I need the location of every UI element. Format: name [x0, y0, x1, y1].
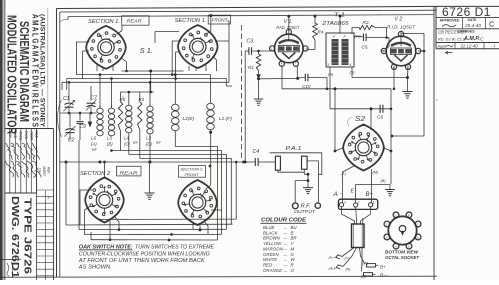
junction — [370, 107, 373, 110]
svg-text:V 2: V 2 — [395, 17, 403, 23]
rotary switch S1 section1 front — [178, 25, 218, 68]
coil L5 — [111, 105, 113, 108]
svg-text:4: 4 — [350, 63, 352, 67]
junction — [171, 73, 174, 76]
osc wire — [330, 108, 391, 110]
wire sec2rear top — [104, 162, 106, 178]
wire L5 feed — [111, 79, 113, 108]
wire E to ground — [356, 185, 390, 203]
svg-text:2TA6865: 2TA6865 — [321, 21, 349, 27]
wire C4 into socket — [270, 161, 276, 163]
svg-text:DATE: DATE — [468, 18, 478, 22]
junction — [257, 77, 260, 80]
svg-text:T 1: T 1 — [334, 13, 345, 19]
RF jack right — [315, 203, 320, 208]
junction — [406, 76, 409, 79]
capacitor C6 — [379, 105, 381, 113]
svg-text:APP.: APP. — [8, 131, 12, 139]
svg-text:25-4-40: 25-4-40 — [464, 23, 481, 28]
svg-text:—: — — [283, 226, 288, 230]
svg-text:(M): (M) — [373, 171, 379, 175]
svg-text:R3: R3 — [139, 97, 145, 102]
capacitor C9 — [79, 113, 81, 121]
svg-text:(A): (A) — [91, 142, 97, 147]
title block frame line — [4, 0, 6, 280]
svg-text:6726 D1: 6726 D1 — [442, 6, 491, 19]
wire socket to jack — [307, 161, 318, 203]
svg-text:—: — — [283, 247, 288, 251]
svg-text:3: 3 — [344, 200, 346, 204]
variable capacitor C1 — [68, 82, 70, 101]
wire L3 feed — [149, 82, 151, 106]
svg-text:TYPE J6726: TYPE J6726 — [21, 198, 32, 275]
feeder bus yB — [121, 91, 155, 93]
arrow tap C7 — [89, 113, 91, 122]
rotary switch S2 front — [178, 180, 217, 225]
svg-text:2.: 2. — [356, 201, 360, 205]
wires section2 rear — [80, 190, 92, 225]
triode V1 — [275, 34, 304, 63]
wire R1 to node — [258, 71, 260, 79]
svg-text:(D): (D) — [146, 142, 152, 147]
svg-text:—: — — [283, 242, 288, 246]
wire FRONT tag to switch — [210, 16, 212, 31]
handwritten log entries — [6, 143, 13, 160]
svg-text:YELLOW: YELLOW — [263, 241, 282, 246]
svg-text:B: B — [291, 230, 294, 235]
svg-text:31 12-40: 31 12-40 — [460, 43, 478, 48]
svg-text:A.M.P.: A.M.P. — [463, 36, 480, 42]
svg-text:C7: C7 — [91, 96, 98, 102]
coil L1 — [207, 103, 215, 109]
capacitor C5 — [359, 36, 363, 38]
svg-text:RF: RF — [133, 141, 139, 145]
wire L1 feed — [210, 75, 212, 103]
svg-text:FRONT: FRONT — [212, 18, 228, 23]
wire S2 bottom L — [343, 166, 355, 203]
svg-text:BLACK: BLACK — [263, 230, 278, 235]
bus junction x210 — [209, 14, 212, 17]
capacitor C4 — [254, 158, 256, 166]
ground near terminals — [385, 189, 395, 191]
wire T1 S drop — [351, 67, 353, 78]
svg-text:—: — — [283, 253, 288, 257]
svg-text:C: C — [480, 37, 484, 43]
svg-text:A M A L G A M A T E D W I R: A M A L G A M A T E D W I R E L E S S — [31, 14, 40, 128]
tag FRONT — [208, 15, 230, 24]
cluster bus — [60, 112, 97, 114]
left drop x66 — [65, 162, 67, 225]
S wire — [352, 77, 408, 79]
svg-text:Appd: Appd — [437, 44, 447, 48]
coil L4 — [126, 105, 132, 110]
svg-text:MAROON: MAROON — [263, 246, 284, 251]
tag REAR — [122, 16, 149, 25]
wire S2 hub right — [383, 148, 391, 152]
svg-text:RF: RF — [156, 141, 162, 145]
left drop x91 — [90, 232, 92, 240]
wire T1 N drop — [329, 67, 331, 109]
bottom wire 2 — [79, 228, 226, 230]
svg-text:C3.: C3. — [247, 39, 255, 45]
svg-text:L4: L4 — [124, 136, 130, 141]
junction — [199, 228, 202, 231]
bus junction x340 — [339, 15, 342, 18]
pin7 wire V2 — [407, 66, 410, 78]
junction — [296, 77, 299, 80]
ground on bus — [149, 162, 151, 193]
wire S2 right — [390, 89, 392, 184]
svg-text:R.I.D. 1Q5GT: R.I.D. 1Q5GT — [387, 24, 416, 29]
svg-text:A+: A+ — [327, 266, 337, 271]
svg-text:—: — — [283, 237, 288, 241]
border bottom — [0, 276, 437, 277]
spade lugs A — [336, 255, 342, 259]
main bus yC — [60, 161, 244, 163]
wires into cable — [342, 207, 355, 224]
svg-text:- 1: - 1 — [491, 44, 495, 48]
transformer T1 — [326, 33, 354, 67]
svg-text:DWG. 6726D1: DWG. 6726D1 — [9, 196, 21, 278]
ground V2 cathode — [407, 78, 409, 92]
wire mid feed — [150, 71, 152, 92]
svg-text:(AUSTRALASIA) LTD. — SYDNEY: (AUSTRALASIA) LTD. — SYDNEY — [39, 14, 46, 128]
wire T1 (W) stub — [354, 36, 359, 38]
wire L4 stub — [128, 92, 130, 105]
wire R3 run — [140, 158, 232, 224]
plug B- — [364, 273, 373, 276]
svg-text:RED: RED — [263, 262, 273, 267]
svg-text:BU: BU — [291, 225, 298, 230]
svg-text:SHEET: SHEET — [42, 166, 46, 177]
PA1 socket right — [302, 156, 308, 169]
svg-text:(R): (R) — [346, 267, 351, 271]
svg-text:AT FRONT OF UNIT THEN WOR: AT FRONT OF UNIT THEN WORK FROM BACK — [78, 258, 206, 264]
wire C5 to V2 grid — [386, 38, 390, 50]
svg-text:SECTION 1.: SECTION 1. — [175, 18, 207, 24]
sheet ref cell — [36, 129, 38, 281]
wire left drop1 — [61, 82, 63, 90]
bottom wire 5 — [99, 218, 236, 220]
svg-text:COUNTER-CLOCKWISE POSITION W: COUNTER-CLOCKWISE POSITION WHEN LOOKING — [79, 251, 210, 257]
svg-text:L3: L3 — [146, 136, 152, 141]
pin4 wire V2 — [419, 50, 424, 52]
svg-text:(B): (B) — [381, 179, 387, 183]
wire C10 to N — [326, 77, 328, 88]
wire socket bottom — [303, 169, 305, 174]
wire to ground PA1 — [307, 174, 309, 187]
resistor R4 — [314, 16, 316, 23]
border inner top — [60, 10, 436, 12]
bus wire yA3 — [67, 78, 227, 80]
filament wire — [259, 77, 298, 79]
svg-text:3: 3 — [327, 63, 329, 67]
svg-text:B+: B+ — [366, 192, 374, 198]
ground PA1 — [303, 187, 313, 189]
PA1 top rail — [270, 153, 322, 175]
border outer top — [57, 6, 437, 8]
filament bus — [282, 88, 391, 90]
svg-text:(C): (C) — [124, 142, 130, 147]
wire front-right drop — [228, 21, 230, 82]
scan mark — [60, 19, 68, 22]
junction — [385, 36, 388, 39]
svg-text:REAR: REAR — [120, 170, 139, 176]
svg-text:BROWN: BROWN — [263, 236, 281, 241]
coil L6 — [99, 105, 101, 108]
svg-text:(Y): (Y) — [345, 257, 350, 261]
resistor R5 — [118, 102, 122, 131]
svg-text:C: C — [489, 20, 495, 29]
svg-text:1st: 1st — [38, 168, 42, 172]
border right wire — [433, 6, 435, 280]
svg-text:BOTTOM VIEW: BOTTOM VIEW — [385, 250, 419, 255]
bus junction x315 — [314, 15, 317, 18]
svg-text:R4: R4 — [318, 30, 324, 35]
title box frame — [435, 6, 437, 48]
junction — [391, 135, 394, 138]
pin5 wire V2 — [383, 50, 386, 52]
cable sleeve — [352, 224, 365, 248]
title block divider — [47, 8, 49, 129]
svg-text:(B): (B) — [107, 142, 113, 147]
svg-text:1.: 1. — [372, 201, 375, 205]
border outer left — [56, 9, 58, 278]
junction — [149, 70, 152, 73]
ground below R1 — [254, 98, 263, 100]
wire left drop2 — [66, 79, 68, 91]
svg-text:OCTAL SOCKET: OCTAL SOCKET — [385, 255, 420, 260]
svg-text:C9: C9 — [80, 124, 87, 130]
rotary switch S2 rear — [85, 178, 124, 223]
approval date row 2 — [454, 43, 456, 49]
svg-text:ABBR.: ABBR. — [29, 131, 33, 141]
junction — [109, 238, 112, 241]
svg-text:—: — — [283, 269, 288, 273]
pin4 wire V1 — [307, 48, 315, 50]
svg-text:RD. D.I.W. C1.D: RD. D.I.W. C1.D — [438, 38, 466, 42]
wire R3 stub — [139, 92, 141, 102]
svg-text:(N): (N) — [328, 73, 334, 77]
svg-text:S 1.: S 1. — [140, 46, 153, 55]
svg-text:E: E — [351, 189, 355, 195]
svg-text:R2.: R2. — [363, 20, 370, 26]
svg-text:—: — — [283, 258, 288, 262]
svg-text:P.A.1: P.A.1 — [286, 146, 302, 152]
pin3 wire V1 — [288, 16, 290, 41]
wire REAR tag to switch — [121, 25, 123, 30]
svg-text:—: — — [283, 231, 288, 235]
junction — [65, 161, 68, 164]
svg-text:O: O — [291, 268, 295, 273]
wire L2 feed — [174, 75, 176, 104]
svg-text:R5: R5 — [120, 97, 126, 102]
pin2 wire V2 — [393, 66, 395, 89]
wire R5 stub — [120, 92, 122, 102]
scan dark left edge — [0, 0, 3, 280]
border inner left — [59, 12, 61, 277]
bottom wire 4 — [91, 239, 218, 241]
pin7 wire V1 — [296, 66, 298, 79]
svg-text:SECTION 2: SECTION 2 — [80, 171, 111, 177]
svg-text:C2: C2 — [68, 138, 75, 144]
capacitor C10 — [304, 74, 306, 82]
svg-text:B—: B— — [380, 273, 388, 278]
wire C6 top drop — [370, 109, 372, 130]
bus junction x288 — [287, 15, 290, 18]
rotary switch S2 — [343, 125, 384, 171]
svg-text:BLUE: BLUE — [263, 225, 275, 230]
wire L6 feed — [99, 75, 101, 107]
svg-text:SCHEMATIC DIAGRAM: SCHEMATIC DIAGRAM — [17, 21, 31, 122]
resistor R3 — [138, 102, 142, 130]
wire node to ground — [258, 79, 260, 99]
revision grid — [44, 190, 46, 280]
svg-text:FRONT: FRONT — [185, 172, 200, 177]
svg-text:A—: A— — [327, 255, 336, 260]
trimmer capacitor C7 — [90, 86, 92, 101]
svg-text:B+: B+ — [380, 264, 386, 269]
svg-text:RF: RF — [92, 148, 98, 152]
wire S2 bottom M — [370, 169, 372, 203]
svg-text:S2: S2 — [355, 116, 365, 123]
rotary switch S1 section1 rear — [86, 26, 126, 69]
wires S1 front contacts — [172, 41, 181, 75]
approved date row — [462, 18, 464, 29]
pin8 wire V1 — [281, 66, 283, 89]
gang link arc C1-C2 — [58, 100, 62, 138]
svg-text:A: A — [47, 196, 52, 199]
resistor R2 — [352, 28, 359, 35]
svg-text:L2(E): L2(E) — [183, 116, 195, 122]
svg-text:SECTION 1.: SECTION 1. — [88, 19, 120, 25]
dashed divider — [241, 25, 243, 161]
bus wire yA1 — [122, 70, 184, 72]
wire L5 run — [112, 151, 222, 235]
coil L3 — [149, 104, 151, 106]
capacitor C3 — [245, 50, 248, 52]
triode V2 — [386, 36, 416, 66]
plug B+ — [367, 264, 376, 267]
wire S2 left — [334, 89, 336, 151]
pin1 wire V2 — [401, 34, 424, 47]
B+ bus wire — [67, 17, 69, 20]
wires section2 front — [206, 185, 211, 189]
wire jack left — [295, 181, 308, 203]
tag FRONT section2 — [179, 166, 206, 178]
bottom wire 3 — [85, 233, 222, 235]
junction — [307, 173, 310, 176]
log table column lines — [9, 129, 11, 194]
wire L2 run — [175, 147, 217, 241]
svg-text:-: - — [340, 191, 342, 197]
svg-text:M: M — [291, 246, 295, 251]
terminal strip — [338, 199, 377, 209]
svg-text:L6: L6 — [91, 136, 97, 141]
left drop x79 — [78, 140, 80, 230]
svg-text:REAR: REAR — [127, 19, 143, 25]
svg-text:R1: R1 — [248, 65, 254, 70]
svg-text:SECTION 2.: SECTION 2. — [181, 167, 204, 172]
svg-text:G: G — [291, 252, 295, 257]
svg-text:OUTPUT.: OUTPUT. — [294, 209, 316, 214]
svg-text:DWG.: DWG. — [24, 131, 28, 140]
svg-text:ORANGE: ORANGE — [263, 268, 282, 273]
svg-text:BR: BR — [291, 236, 298, 241]
svg-text:C5.: C5. — [361, 45, 368, 51]
bottom-left handwritten note — [0, 259, 21, 261]
wire S2 hub left — [335, 148, 344, 152]
wire left socket bottom — [278, 170, 304, 172]
svg-text:REF.: REF. — [47, 167, 51, 174]
junction — [334, 87, 337, 90]
variable capacitor C2 — [69, 113, 71, 128]
revision arrow — [446, 52, 453, 54]
svg-text:C6: C6 — [377, 115, 383, 121]
svg-text:APPROVED: APPROVED — [440, 19, 461, 23]
bus wire yA4 — [62, 81, 229, 83]
svg-text:L5: L5 — [107, 136, 113, 141]
svg-text:TURN SWITCHES TO EXTREME: TURN SWITCHES TO EXTREME — [135, 245, 215, 251]
bus wire yA2 — [76, 74, 210, 76]
wire C3 drop — [244, 51, 246, 162]
svg-text:COLOUR CODE: COLOUR CODE — [261, 218, 306, 224]
resistor R1 — [258, 51, 260, 54]
coil L2 — [172, 104, 180, 110]
svg-text:L1.(F): L1.(F) — [219, 116, 232, 122]
svg-text:TRCD.: TRCD. — [19, 131, 23, 141]
svg-text:WHITE: WHITE — [263, 257, 277, 262]
pin2 wire V1 — [271, 50, 274, 52]
svg-text:CB RECEIVER: CB RECEIVER — [438, 30, 466, 35]
svg-text:C4: C4 — [253, 149, 260, 155]
octal socket bottom view — [388, 216, 416, 244]
svg-text:C10: C10 — [302, 84, 311, 89]
svg-text:CKD.: CKD. — [13, 131, 17, 139]
svg-text:AS SHOWN.: AS SHOWN. — [78, 264, 112, 270]
PA1 socket left — [275, 156, 280, 170]
svg-text:GREEN: GREEN — [263, 252, 279, 257]
wire yA3 right drop — [226, 79, 232, 87]
bottom wire 1 — [66, 223, 233, 226]
plate wire right — [392, 34, 424, 137]
wire yC right drop — [235, 162, 237, 219]
svg-text:A: A — [333, 191, 338, 198]
wire T1 primary top — [339, 16, 341, 33]
cable tails — [342, 248, 354, 257]
revision table frame — [5, 128, 54, 130]
RF jack left — [292, 203, 298, 209]
wires S1 rear to bus — [76, 42, 89, 75]
wire L4 run — [129, 155, 227, 230]
tag REAR section2 — [117, 166, 142, 176]
svg-text:—: — — [283, 263, 288, 267]
